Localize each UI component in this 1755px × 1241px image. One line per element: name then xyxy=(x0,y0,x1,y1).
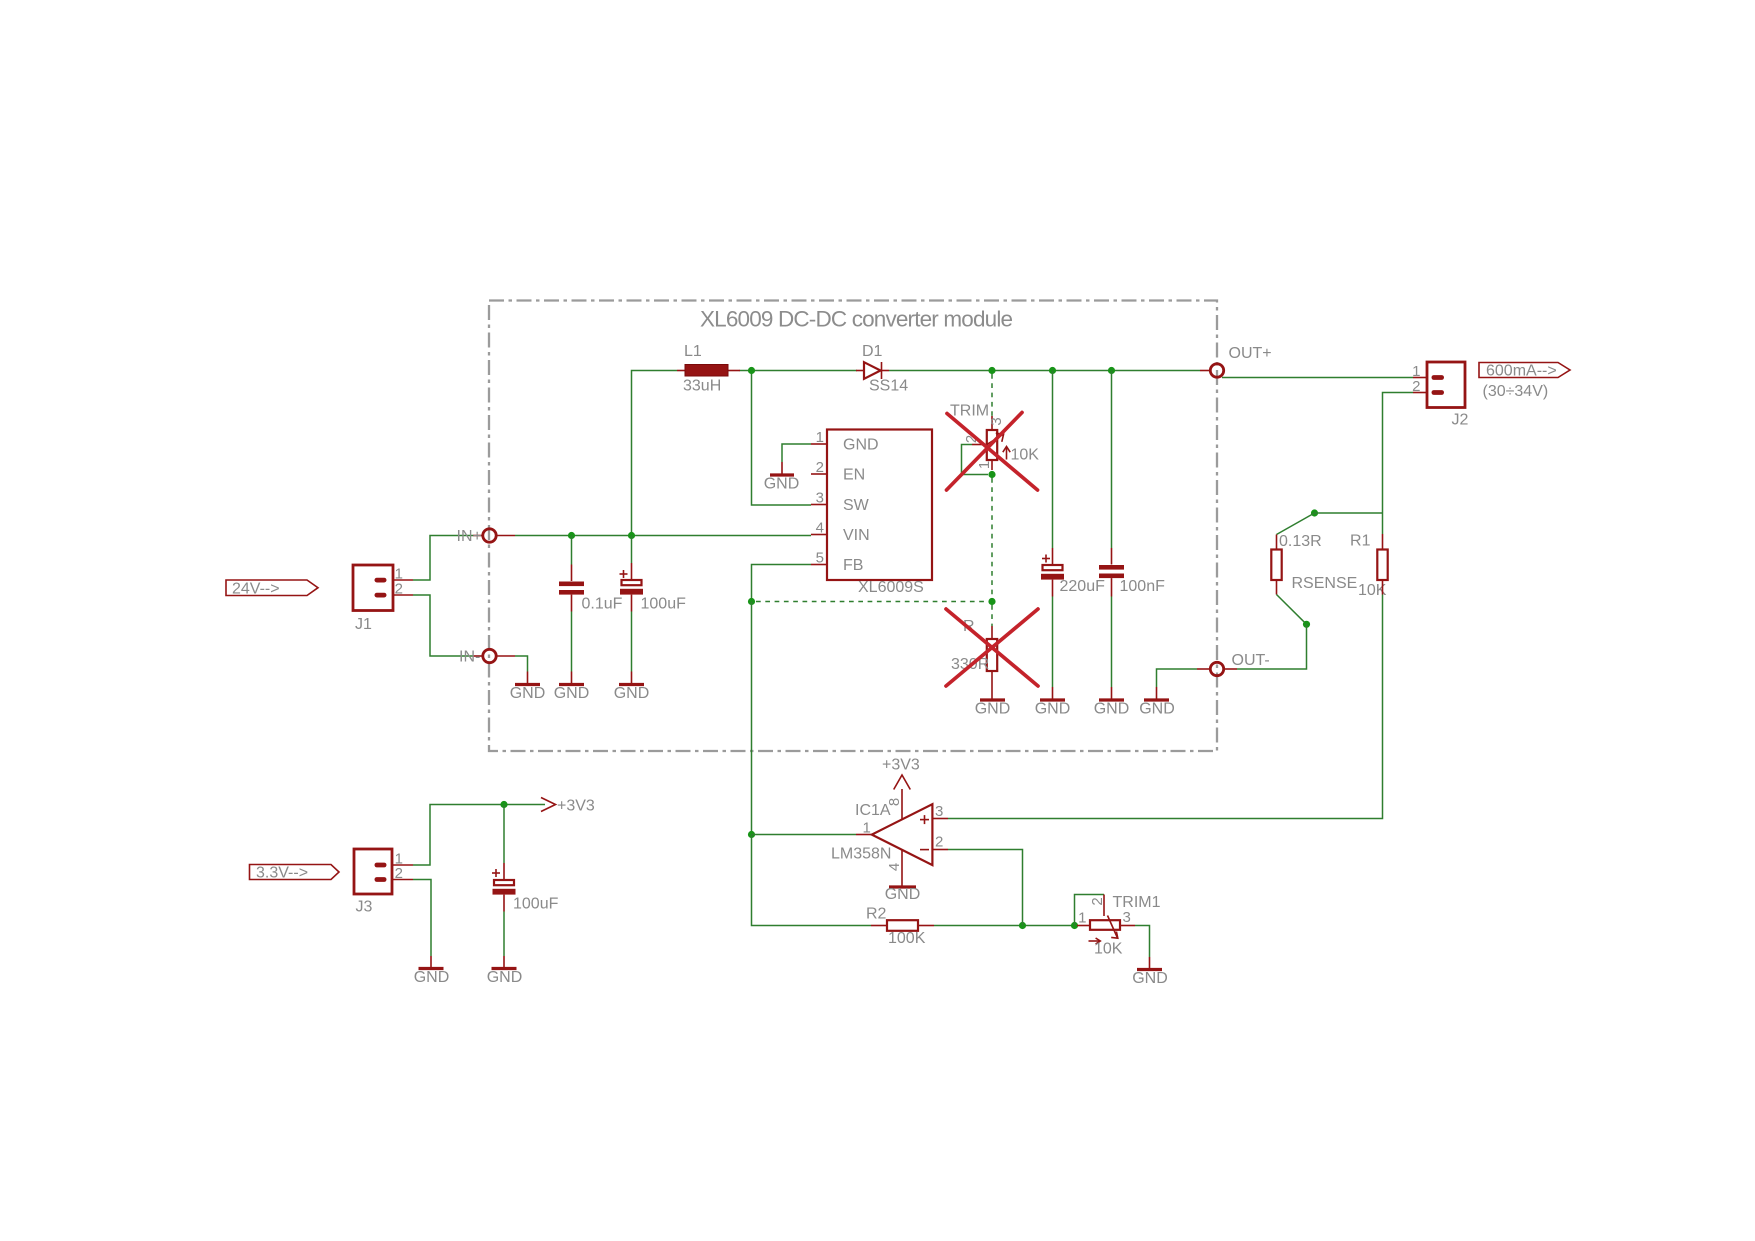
connector J3 body xyxy=(354,849,392,894)
svg-text:1: 1 xyxy=(863,820,871,837)
svg-text:GND: GND xyxy=(554,685,590,702)
resistor R body xyxy=(987,639,997,671)
junction dot 100uF branch xyxy=(628,532,635,539)
ground J3 pin xyxy=(430,956,432,969)
svg-text:+3V3: +3V3 xyxy=(882,757,920,774)
ground TRIM1 bar xyxy=(1137,968,1162,971)
svg-text:GND: GND xyxy=(414,969,450,986)
svg-text:100uF: 100uF xyxy=(513,896,559,913)
svg-text:2: 2 xyxy=(816,459,824,476)
inductor L1 pins xyxy=(677,370,685,372)
svg-text:1: 1 xyxy=(1078,910,1086,927)
junction dot op-amp output node xyxy=(748,831,755,838)
svg-text:IN+: IN+ xyxy=(457,528,482,545)
connector J1 pin stub 1 xyxy=(375,578,387,583)
potentiometer TRIM1 pin 2 lead xyxy=(1103,895,1105,917)
svg-text:5: 5 xyxy=(816,550,824,567)
svg-text:J2: J2 xyxy=(1452,412,1469,429)
svg-text:(30÷34V): (30÷34V) xyxy=(1483,383,1549,400)
wire J2 pin2 down right rail xyxy=(1383,393,1414,514)
connector J1 body xyxy=(353,565,393,611)
wire diagonal RSENSE to OUT- node xyxy=(1277,595,1307,625)
capacitor C 0.1uF top pin xyxy=(571,536,573,565)
resistor R2 right pin xyxy=(918,925,934,927)
capacitor C 100uF top plate xyxy=(622,580,642,585)
ground 0.1uF pin xyxy=(571,672,573,685)
wire dashed FB node down to R xyxy=(991,605,993,626)
svg-text:GND: GND xyxy=(1094,701,1130,718)
connector J2 pin leads xyxy=(1413,377,1427,379)
svg-text:3.3V-->: 3.3V--> xyxy=(256,865,308,882)
wire output node to op-amp pin1 xyxy=(752,834,857,836)
svg-text:IN-: IN- xyxy=(459,649,480,666)
capacitor C 100uF plus sign xyxy=(620,573,628,575)
junction dot 100uF branch xyxy=(500,801,507,808)
diode D1 cathode bar xyxy=(881,362,883,379)
svg-text:33uH: 33uH xyxy=(683,378,721,395)
svg-text:GND: GND xyxy=(975,701,1011,718)
ground IC pin xyxy=(781,462,783,475)
capacitor 100nF top pin xyxy=(1111,371,1113,549)
svg-text:220uF: 220uF xyxy=(1060,578,1106,595)
svg-text:J1: J1 xyxy=(355,616,372,633)
connector J3 pin stub 1 xyxy=(375,863,387,868)
resistor RSENSE top pin xyxy=(1276,535,1278,550)
wire R2 to inverting node xyxy=(934,925,1077,927)
resistor R1 body xyxy=(1377,550,1387,581)
wire wiper loop up over TRIM1 xyxy=(1075,895,1105,926)
power +3V3 arrow op-amp xyxy=(894,775,911,790)
svg-text:1: 1 xyxy=(816,429,824,446)
svg-text:FB: FB xyxy=(843,557,863,574)
junction dot RSENSE top xyxy=(1311,509,1318,516)
ground IN- bar xyxy=(515,683,540,686)
pad IN+ pins xyxy=(473,535,482,537)
IC U1 pin stubs 1-5 xyxy=(811,443,827,445)
wire IN+ net: vertical up to L1 left xyxy=(632,371,678,536)
ground OUT- bar xyxy=(1144,698,1169,701)
svg-text:3: 3 xyxy=(1123,909,1131,926)
pad OUT+ circle xyxy=(1210,364,1223,377)
op-amp pin 8 lead xyxy=(901,789,903,819)
connector J1 pin stub 2 xyxy=(375,593,387,598)
capacitor 220uF bottom plate xyxy=(1041,574,1064,580)
svg-text:4: 4 xyxy=(886,863,903,871)
pad IN+ circle xyxy=(483,529,496,542)
ground 100nF bar xyxy=(1099,698,1124,701)
module border frame (dash-dot) xyxy=(489,301,1217,752)
ground 220uF pin xyxy=(1052,687,1054,700)
svg-text:2: 2 xyxy=(1089,897,1106,905)
svg-text:24V-->: 24V--> xyxy=(232,581,280,598)
junction dot L1/D1/SW xyxy=(748,367,755,374)
wire OUT+ to J2 pin1 xyxy=(1222,377,1413,379)
svg-text:10K: 10K xyxy=(1011,447,1040,464)
svg-text:GND: GND xyxy=(1035,701,1071,718)
junction dot TRIM pin1 xyxy=(988,471,995,478)
junction dot 220uF branch xyxy=(1049,367,1056,374)
svg-text:VIN: VIN xyxy=(843,527,870,544)
diode D1 body xyxy=(864,362,881,379)
svg-text:XL6009 DC-DC converter module: XL6009 DC-DC converter module xyxy=(700,307,1013,332)
resistor R pin top xyxy=(991,626,993,639)
svg-text:SW: SW xyxy=(843,497,870,514)
wire J1-2 to IN- xyxy=(413,595,473,656)
ground 220uF bar xyxy=(1040,698,1065,701)
svg-text:R2: R2 xyxy=(866,906,887,923)
capacitor 220uF bottom pin xyxy=(1052,580,1054,597)
junction dot inverting node xyxy=(1019,922,1026,929)
resistor RSENSE bottom pin xyxy=(1276,580,1278,595)
svg-text:GND: GND xyxy=(885,886,921,903)
svg-text:GND: GND xyxy=(843,437,879,454)
svg-text:GND: GND xyxy=(1139,701,1175,718)
potentiometer TRIM pin 3 lead xyxy=(991,416,993,430)
svg-text:L1: L1 xyxy=(684,343,702,360)
wire output node down to R2 xyxy=(752,835,872,926)
wire IC pin1 to ground xyxy=(782,444,811,462)
svg-text:D1: D1 xyxy=(862,343,883,360)
op-amp plus mark xyxy=(920,819,929,821)
power +3V3 arrow right xyxy=(541,798,556,812)
svg-text:100uF: 100uF xyxy=(641,596,687,613)
connector J3 pin leads xyxy=(392,864,413,866)
resistor RSENSE body xyxy=(1271,550,1281,581)
capacitor C 0.1uF bottom pin xyxy=(571,595,573,612)
op-amp minus mark xyxy=(920,849,929,851)
ground J3 bar xyxy=(419,967,444,970)
capacitor 220uF top pin xyxy=(1052,371,1054,549)
wire dashed OUT+ junction down to TRIM pin3 xyxy=(991,374,993,416)
svg-text:600mA-->: 600mA--> xyxy=(1486,363,1557,380)
ground TRIM1 pin xyxy=(1149,957,1151,970)
junction dot FB branch xyxy=(748,598,755,605)
op-amp pin 2 lead xyxy=(932,849,948,851)
resistor R pin bottom xyxy=(991,671,993,700)
svg-text:100K: 100K xyxy=(888,930,926,947)
capacitor 100nF plates xyxy=(1099,565,1124,570)
svg-text:OUT+: OUT+ xyxy=(1229,345,1272,362)
svg-text:2: 2 xyxy=(1412,378,1420,395)
ground op-amp bar xyxy=(889,885,916,888)
potentiometer TRIM1 wiper arrow xyxy=(1108,916,1118,939)
connector J3 pin stub 2 xyxy=(375,877,387,882)
connector J1 pin leads xyxy=(393,579,413,581)
potentiometer TRIM1 adjust arrow right xyxy=(1089,940,1101,942)
wire right rail through R1 junction xyxy=(1382,513,1384,534)
svg-text:R1: R1 xyxy=(1350,533,1371,550)
svg-text:+3V3: +3V3 xyxy=(557,798,595,815)
capacitor C 100uF bottom plate xyxy=(620,589,643,595)
potentiometer TRIM pin 2 lead xyxy=(972,444,987,446)
ground 100uF-2 pin xyxy=(503,956,505,969)
connector J2 pin stub 1 xyxy=(1432,375,1445,380)
wire OUT- to ground xyxy=(1157,669,1198,687)
pad IN- pins xyxy=(473,655,482,657)
wire TRIM1 pin3 to ground xyxy=(1135,926,1150,958)
svg-text:0.1uF: 0.1uF xyxy=(582,596,623,613)
potentiometer TRIM pin 1 lead xyxy=(991,460,993,470)
svg-text:100nF: 100nF xyxy=(1120,578,1166,595)
ground IN- pin xyxy=(527,672,529,685)
junction dot TRIM1 wiper node xyxy=(1071,922,1078,929)
svg-text:J3: J3 xyxy=(356,899,373,916)
wire R1 down to op-amp plus input xyxy=(948,595,1383,819)
svg-text:GND: GND xyxy=(764,476,800,493)
junction dot 0.1uF branch xyxy=(568,532,575,539)
wire dashed FB to TRIM bottom xyxy=(756,601,988,603)
op-amp pin 4 lead xyxy=(901,850,903,887)
red cross X over R xyxy=(946,609,1038,686)
wire inverting node up to pin2 xyxy=(948,850,1023,926)
capacitor C 100uF bottom pin xyxy=(631,595,633,612)
potentiometer TRIM wiper arrow xyxy=(984,435,1004,447)
svg-text:GND: GND xyxy=(614,685,650,702)
wire FB net down to op-amp xyxy=(751,602,753,835)
resistor R2 left pin xyxy=(871,925,887,927)
junction dot 100nF branch xyxy=(1108,367,1115,374)
diode D1 pins xyxy=(856,370,864,372)
op-amp IC1A pin 1 lead xyxy=(856,834,872,836)
potentiometer TRIM body xyxy=(987,430,997,460)
svg-text:GND: GND xyxy=(487,969,523,986)
connector J2 body xyxy=(1427,362,1465,408)
potentiometer TRIM1 pin 1 lead xyxy=(1077,925,1090,927)
svg-text:TRIM1: TRIM1 xyxy=(1113,894,1161,911)
svg-text:LM358N: LM358N xyxy=(831,846,891,863)
ground OUT- pin xyxy=(1156,687,1158,700)
wire diagonal junction to RSENSE xyxy=(1277,513,1315,535)
wire TRIM pin2 loop to pin1 xyxy=(962,445,989,475)
svg-text:1: 1 xyxy=(976,461,993,469)
capacitor 220uF top plate xyxy=(1043,565,1063,570)
potentiometer TRIM1 pin 3 lead xyxy=(1120,925,1135,927)
op-amp pin 3 lead xyxy=(932,818,948,820)
capacitor 100nF bottom pin xyxy=(1111,578,1113,596)
resistor R2 body xyxy=(887,920,918,931)
svg-text:OUT-: OUT- xyxy=(1232,652,1270,669)
pad OUT- circle xyxy=(1210,662,1223,675)
wire SW net: junction down to SW pin xyxy=(752,371,812,506)
potentiometer TRIM1 body xyxy=(1090,920,1120,930)
capacitor 100uF bottom-left top pin xyxy=(503,863,505,880)
capacitor 100uF bottom-left bottom pin xyxy=(503,895,505,912)
pad OUT- pins xyxy=(1197,668,1210,670)
ground 100uF pin xyxy=(631,672,633,685)
capacitor 100uF bottom-left top plate xyxy=(494,880,514,885)
svg-text:3: 3 xyxy=(816,490,824,507)
resistor R1 bottom pin xyxy=(1382,580,1384,595)
wire J1-1 to IN+ xyxy=(413,536,473,581)
capacitor 220uF plus sign xyxy=(1042,558,1050,560)
pad OUT+ left pin xyxy=(1200,370,1210,372)
ground 100uF-2 bar xyxy=(492,967,517,970)
wire IN+ net to VIN pin xyxy=(515,535,811,537)
wire junction to right rail xyxy=(1315,512,1383,514)
wire OUT+ net: D1 cathode to OUT+ pad xyxy=(889,370,1200,372)
ground 100nF pin xyxy=(1111,687,1113,700)
capacitor C 100uF top pin xyxy=(631,536,633,564)
IC U1 XL6009S body xyxy=(827,430,932,581)
wire SW net: L1 right to D1 anode xyxy=(740,370,858,372)
resistor R1 top pin xyxy=(1382,534,1384,550)
wire J3 pin1 up to +3V3 xyxy=(413,805,545,866)
connector J2 pin stub 2 xyxy=(1432,390,1445,395)
wire J3 pin2 down to ground xyxy=(413,880,431,957)
svg-text:GND: GND xyxy=(510,685,546,702)
ground R bar xyxy=(980,698,1005,701)
svg-text:TRIM: TRIM xyxy=(950,403,989,420)
inductor L1 body xyxy=(685,365,728,377)
svg-text:3: 3 xyxy=(988,417,1005,425)
svg-text:IC1A: IC1A xyxy=(855,802,891,819)
svg-text:XL6009S: XL6009S xyxy=(858,579,924,596)
wire FB net down to feedback xyxy=(752,565,812,602)
junction dot OUT- node xyxy=(1303,621,1310,628)
svg-text:2: 2 xyxy=(935,834,943,851)
wire IN- to ground xyxy=(515,656,528,672)
svg-text:GND: GND xyxy=(1132,970,1168,987)
pad IN- circle xyxy=(483,649,496,662)
svg-text:0.13R: 0.13R xyxy=(1279,533,1322,550)
capacitor 100uF bottom-left bottom plate xyxy=(493,889,516,895)
svg-text:10K: 10K xyxy=(1094,941,1123,958)
svg-text:EN: EN xyxy=(843,467,865,484)
svg-text:4: 4 xyxy=(816,520,824,537)
ground IC bar xyxy=(770,473,794,476)
svg-text:SS14: SS14 xyxy=(869,378,908,395)
svg-text:RSENSE: RSENSE xyxy=(1292,575,1358,592)
capacitor C 0.1uF plates xyxy=(559,582,584,587)
junction dot TRIM branch xyxy=(988,367,995,374)
junction dot FB/R node xyxy=(988,598,995,605)
red cross X over TRIM xyxy=(947,414,1038,491)
wire down to 100uF xyxy=(503,805,505,864)
wire dashed TRIM pin1 down to FB node xyxy=(991,478,993,598)
svg-text:3: 3 xyxy=(935,803,943,820)
potentiometer TRIM adjust arrow up xyxy=(1006,447,1008,460)
wire OUT- node down xyxy=(1237,624,1307,669)
ground 100uF bar xyxy=(619,683,644,686)
op-amp IC1A triangle body xyxy=(872,804,933,865)
capacitor 100uF bottom-left plus sign xyxy=(492,872,500,874)
ground 0.1uF bar xyxy=(559,683,584,686)
